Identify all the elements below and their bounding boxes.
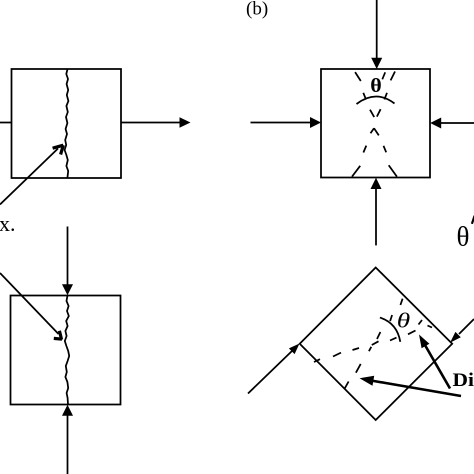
svg-text:x.: x. [0, 211, 16, 236]
svg-text:θ: θ [370, 74, 382, 97]
svg-text:θ: θ [397, 309, 410, 332]
svg-text:θ: θ [457, 222, 470, 252]
svg-text:(b): (b) [246, 0, 268, 20]
svg-text:Di: Di [453, 370, 474, 391]
